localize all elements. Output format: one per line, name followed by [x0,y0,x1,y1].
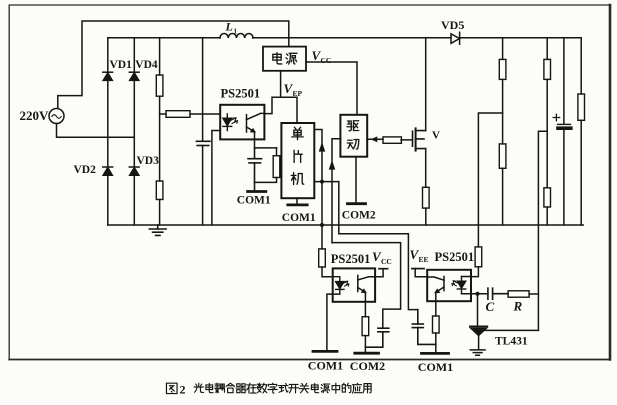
wire output divider branch 2 [546,38,548,225]
ground bar COM1 MCU [288,203,307,206]
resistor R feedback [508,291,529,297]
svg-text:COM1: COM1 [418,360,453,374]
resistor source sense [423,187,430,208]
svg-text:EE: EE [419,255,429,264]
resistor divider lower [156,181,163,200]
capacitor opto2 timing [365,328,388,347]
wire feedback tap to TL431 chain [478,113,502,247]
diode VD2 [103,167,113,175]
wire driver ground stem [355,157,357,204]
optocoupler U5 PS2501 box [333,268,375,301]
resistor divider1 upper [499,59,506,79]
wire staircase MCU to Vee node [339,182,418,310]
wire battery branch [563,38,565,225]
svg-text:TL431: TL431 [495,336,528,348]
svg-text:L: L [225,20,233,34]
wire RC feedback riser [538,131,547,330]
svg-text:C: C [486,299,495,314]
plus sign battery [553,114,559,120]
resistor divider1 lower [499,144,506,168]
svg-text:R: R [513,299,523,314]
wire Vcc from power box to driver [306,62,357,115]
opto1 phototransistor [247,113,265,139]
wire opto3 emitter [435,301,437,353]
inductor L [220,33,253,38]
node F junction dot [476,292,480,296]
svg-text:CC: CC [321,56,332,65]
wire divider branch [159,38,161,225]
resistor divider2 lower [544,188,551,207]
wire staircase driver to cap [332,243,401,329]
wire opto2 emitter [364,302,366,353]
wire source bottom to bridge right branch [57,124,135,138]
svg-text:COM1: COM1 [237,195,271,207]
node bus junction dot [320,223,324,227]
ground bar COM1 opto2 [313,350,337,353]
resistor gate [383,137,401,143]
svg-text:COM2: COM2 [350,359,385,373]
wire Vep from power box to opto1 and MCU [264,71,297,123]
node A junction dot [320,180,324,184]
ground bar COM2 opto2 [355,352,379,355]
Vcc terminal bar [379,268,388,270]
arrowhead left on gate wire [372,137,377,141]
wire Vcc terminal opto2 [375,269,383,277]
opto1 LED [223,114,238,131]
wire LED3 anode from divider [462,267,479,277]
svg-text:V: V [432,130,440,142]
power supply box 电源 U2 [263,47,306,71]
ground earth symbol [149,225,166,235]
wire MCU right pins to node A [314,130,339,249]
bottom bus COM1 rail [108,224,583,226]
wire bridge branch VD4/VD3 [133,38,135,225]
wire LED2 series resistor branch [322,267,333,277]
diode VD5 [451,32,460,44]
capacitor input filter [196,141,210,145]
svg-text:COM1: COM1 [308,359,343,373]
svg-text:VD1: VD1 [110,59,133,71]
AC source 220V [49,109,64,124]
resistor LED series [166,111,190,118]
ground bar COM1 opto3 [422,352,449,355]
svg-text:CC: CC [381,257,392,266]
wire MCU ground stem [296,198,298,205]
wire top rail A from source to power box [58,21,289,109]
opto3 phototransistor [427,276,444,301]
svg-text:EP: EP [293,89,303,98]
wire filter cap branch [202,38,204,225]
resistor opto1 load [255,148,277,183]
optocoupler U1 PS2501 box [220,105,264,140]
svg-text:PS2501: PS2501 [221,87,261,101]
svg-text:PS2501: PS2501 [435,250,475,264]
wire driver feedback pin [332,139,340,243]
wire TL431 ref input [484,329,538,331]
wire gate drive [367,138,413,141]
microcontroller U3 单片机 box [281,123,314,198]
svg-text:VD2: VD2 [74,164,97,176]
resistor opto3 emitter [433,316,440,333]
resistor LED2 series [319,249,326,267]
svg-text:2: 2 [180,383,186,397]
resistor opto2 emitter [362,317,369,336]
diode VD4 [129,72,139,80]
svg-text:VD4: VD4 [135,59,158,71]
wire MOSFET source down [425,149,427,225]
ground bar COM1 opto1 [248,190,266,193]
wire rail B rectified positive [108,37,581,39]
TL431 D6 [470,326,488,350]
wire opto1 cathode return [212,131,220,226]
ground small TL431 [470,350,485,355]
arrowhead up on driver pin wire [329,162,334,170]
MOSFET V Q1 [413,128,426,150]
svg-text:1: 1 [234,28,238,36]
svg-text:220V: 220V [20,108,50,123]
resistor load [578,94,585,120]
optocoupler U6 PS2501 box [427,270,471,301]
svg-text:PS2501: PS2501 [331,252,371,266]
wire Vee to opto3 collector [415,269,427,277]
resistor divider2 upper [544,59,551,79]
svg-text:COM1: COM1 [282,212,316,224]
wire TL431 cathode [477,294,479,327]
resistor LED3 series [475,247,482,267]
battery output electrolytic [558,124,571,128]
ground bar COM2 driver [348,202,366,205]
svg-text:VD3: VD3 [137,155,160,167]
wire MOSFET drain to rail [425,38,427,131]
capacitor opto1 bypass [248,148,262,191]
resistor divider upper [156,75,163,96]
wire R to riser [529,293,538,295]
wire load branch [580,38,582,225]
wire opto1 emitter node [255,139,277,148]
opto2 LED [333,277,349,294]
wire bridge branch VD1/VD2 [107,38,109,225]
wire LED input tap [160,113,221,115]
driver box 驱动 U4 [340,115,367,157]
opto2 phototransistor [358,275,375,301]
capacitor Vee decoupling [412,310,436,345]
caption figure 2 [166,383,371,397]
diode VD3 [129,167,139,175]
opto3 LED [452,277,466,294]
wire output divider branch 1 [502,38,504,225]
wire LED3 cathode node F [462,293,488,295]
diode VD1 [103,72,113,80]
wire opto2 cathode to COM1 [327,294,340,351]
svg-text:VD5: VD5 [441,18,464,32]
svg-text:COM2: COM2 [342,209,376,221]
Vee terminal bar [412,268,424,270]
arrowhead up on feedback wire [319,144,324,152]
capacitor C feedback [488,288,508,299]
